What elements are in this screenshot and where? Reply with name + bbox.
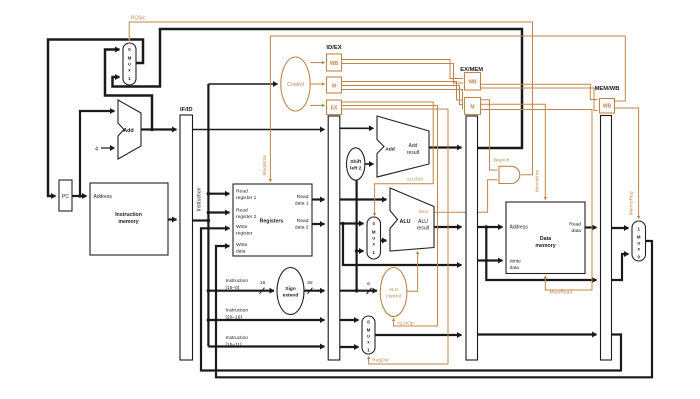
wire WB signals EX/MEM to MEM/WB [481,84,598,99]
bit-width slash 6 [367,288,372,294]
svg-text:result: result [417,226,430,232]
wire instruction out of IF/ID [193,219,209,221]
wire MEM/WB read data to WB mux input 1 [612,227,629,229]
wire immediate to ALU control [340,290,377,292]
svg-text:Instruction: Instruction [197,187,203,211]
svg-text:memory: memory [118,219,138,225]
wire instruction 15-11 to RegDst mux input 1 [340,346,359,348]
wire Control to ID/EX WB [310,62,324,64]
svg-text:16: 16 [260,280,266,286]
wire PC to instruction memory [72,195,87,197]
svg-text:data: data [571,228,581,234]
svg-text:u: u [637,241,640,246]
svg-text:Add: Add [385,147,395,153]
wire MEM/WB ALU result to WB mux input 0 [612,254,629,280]
wire ALU result to data memory address [478,226,503,228]
wire Control to ID/EX M [310,83,324,85]
wire instruction to Read register 2 [208,211,229,213]
wire ALU control to ALU [407,252,418,292]
wire sign extend out to ID/EX [304,290,325,292]
PCSrc mux [123,43,136,85]
svg-text:EX/MEM: EX/MEM [460,67,483,73]
svg-text:ALU: ALU [418,219,428,225]
svg-text:ID/EX: ID/EX [326,45,341,51]
wire instruction bus vertical [207,84,209,347]
svg-text:M: M [372,230,376,235]
data memory [506,202,585,274]
EX/MEM pipeline register [466,116,478,360]
wire read data 1 to ID/EX [312,198,325,200]
svg-text:RegDst: RegDst [372,358,389,364]
wire write back data loop to Registers [216,241,652,377]
svg-text:data: data [510,265,520,271]
svg-text:u: u [128,62,131,67]
svg-text:MEM/WB: MEM/WB [595,86,620,92]
svg-text:Instruction: Instruction [115,212,142,218]
labels ALUSrc mux [372,221,376,255]
svg-text:EX: EX [331,106,338,112]
ID/EX EX box [327,100,342,115]
PC register [59,180,72,211]
EX/MEM WB box [465,73,481,91]
svg-text:[15–11]: [15–11] [226,342,243,348]
wire instruction 15-11 to ID/EX [208,345,324,347]
wire PC+4 loop to PCSrc mux input 0 [105,50,152,130]
wire Branch to AND gate [481,100,498,170]
wire read data 2 to ALUSrc mux input 0 [340,222,364,224]
svg-text:[15–0]: [15–0] [226,285,240,291]
svg-text:32: 32 [307,280,313,286]
svg-text:Address: Address [94,194,113,200]
wire immediate to ALUSrc mux input 1 [357,250,364,252]
svg-text:WB: WB [330,61,339,67]
svg-text:Read: Read [297,194,309,200]
svg-text:6: 6 [367,281,370,287]
svg-text:WB: WB [468,80,477,86]
labels write-back mux [637,227,641,260]
wire instruction to Control [208,83,277,85]
svg-text:MemWrite: MemWrite [534,170,540,192]
labels PCSrc mux [128,47,132,81]
MEM/WB WB box [600,99,615,114]
bit-width slash 16 [260,288,265,294]
svg-text:IF/ID: IF/ID [180,107,193,113]
svg-text:u: u [367,334,370,339]
svg-text:register 1: register 1 [236,195,257,201]
wire MemWrite to data memory [481,104,545,199]
svg-text:register 2: register 2 [236,214,257,220]
wire write register number loop to Registers [201,228,621,370]
svg-text:Instruction: Instruction [226,308,249,314]
svg-text:ALUSrc: ALUSrc [406,177,423,183]
wire PC value up to Add [80,111,115,195]
wire instruction 20-16 to RegDst mux input 0 [340,319,359,321]
wire shift left 2 to Add result [365,163,374,165]
svg-text:ALU: ALU [399,219,410,225]
svg-text:PCSrc: PCSrc [131,16,146,22]
svg-text:Write: Write [236,224,248,230]
wire Add output to IF/ID [141,128,177,130]
svg-text:Read: Read [236,189,248,195]
svg-text:RegWrite: RegWrite [262,155,268,176]
svg-text:Control: Control [287,82,304,88]
svg-text:[20–16]: [20–16] [226,315,243,321]
ID/EX WB box [327,54,342,71]
svg-text:WB: WB [603,104,612,110]
wire instruction 20-16 to ID/EX [208,319,324,321]
wire ALUSrc mux to ALU [381,239,387,241]
svg-text:Write: Write [510,259,522,265]
ALUSrc mux [367,217,381,259]
wire instruction 15-0 to sign extend [208,290,274,292]
svg-text:Data: Data [540,236,551,242]
wire MemRead to data memory [481,110,592,291]
orange control wires [129,22,638,364]
wire WB signals ID/EX to EX/MEM [342,60,464,79]
registers block [233,184,312,256]
svg-text:Add: Add [123,128,133,134]
ID/EX pipeline register [328,116,340,360]
wire read data 1 to ALU [340,198,387,200]
wire ALUOp to ALU control [342,106,438,327]
svg-text:PC: PC [62,194,69,200]
wire mux-to-PC loop [48,40,143,197]
svg-text:memory: memory [535,243,555,249]
control oval [281,57,310,111]
wire RegWrite loop to Registers [270,36,625,182]
labels RegDst mux [367,320,371,353]
wire write register number EX/MEM to MEM/WB [478,333,597,335]
svg-text:MemRead: MemRead [550,290,573,296]
svg-text:data 1: data 1 [295,201,309,207]
wire read data 2 down to memory write data [343,224,462,266]
ALU U1 [390,188,434,251]
svg-text:Registers: Registers [260,219,284,225]
svg-text:Instruction: Instruction [226,278,249,284]
svg-text:Sign: Sign [285,286,296,292]
wire PC+4 IF/ID to ID/EX [193,129,325,131]
wire branch target loop EX/MEM to PCSrc mux input 1 [113,29,523,148]
svg-text:M: M [470,104,474,110]
svg-text:Read: Read [236,208,248,214]
svg-text:u: u [372,236,375,241]
svg-text:Add: Add [409,143,418,149]
svg-text:register: register [236,231,253,237]
wire RegDst mux out to EX/MEM [375,334,462,336]
svg-text:Instruction: Instruction [226,335,249,341]
wire instruction to Read register 1 [208,193,229,195]
wire data memory read data to MEM/WB [585,226,597,228]
instruction memory [90,183,168,255]
write-back mux [632,221,646,261]
component outlines [59,43,646,360]
bit-width slash 32 [308,288,313,294]
svg-text:extend: extend [283,293,299,299]
wire instruction memory to IF/ID [168,218,177,220]
wire M signals ID/EX to EX/MEM [342,82,464,101]
svg-text:Shift: Shift [350,159,361,165]
svg-text:Read: Read [569,222,581,228]
wire RegDst to RegDst mux [342,109,449,364]
RegDst mux [362,316,375,354]
adder Add result [377,116,429,177]
MEM/WB pipeline register [601,116,612,361]
EX/MEM M box [465,98,481,115]
svg-text:Address: Address [510,225,529,231]
svg-text:M: M [367,328,371,333]
svg-text:ALU: ALU [389,287,399,293]
svg-text:left 2: left 2 [350,166,362,172]
svg-text:M: M [332,83,336,89]
wire constant 4 into Add [101,147,115,149]
svg-text:result: result [407,150,420,156]
svg-text:Zero: Zero [419,209,429,214]
svg-text:Branch: Branch [494,158,510,164]
adder Add [118,100,141,159]
svg-text:M: M [128,56,132,61]
IF/ID pipeline register [180,115,193,360]
shift left 2 oval [347,148,365,180]
wire Control to ID/EX EX [310,104,324,106]
wire PCSrc from AND gate to PCSrc mux [129,22,532,175]
wire ALU result to EX/MEM [434,226,462,228]
ID/EX M box [327,77,342,93]
sign extend oval [277,268,304,315]
wire immediate up to shift left 2 and mux [356,180,358,291]
wire ALU result bypass to MEM/WB [486,227,596,280]
wire branch target Add result to EX/MEM [429,146,462,148]
svg-text:Read: Read [297,218,309,224]
wire MemtoReg to WB mux [614,108,639,219]
svg-text:M: M [637,235,641,240]
svg-text:4: 4 [95,147,98,153]
svg-text:ALUOp: ALUOp [398,321,414,327]
wire Zero to AND gate [434,180,498,213]
svg-text:control: control [386,294,401,300]
wire EX/MEM to data memory write data [478,259,503,261]
svg-text:Write: Write [236,242,248,248]
svg-text:data 2: data 2 [295,225,309,231]
svg-text:data: data [236,249,246,255]
AND gate branch [499,166,520,183]
svg-text:MemtoReg: MemtoReg [628,191,634,215]
wire ALUSrc to ALU mux [342,102,434,216]
wire read data 2 to ID/EX [312,223,325,225]
wire PC+4 ID/EX to Add result [340,127,374,129]
ALU control oval [380,268,407,317]
